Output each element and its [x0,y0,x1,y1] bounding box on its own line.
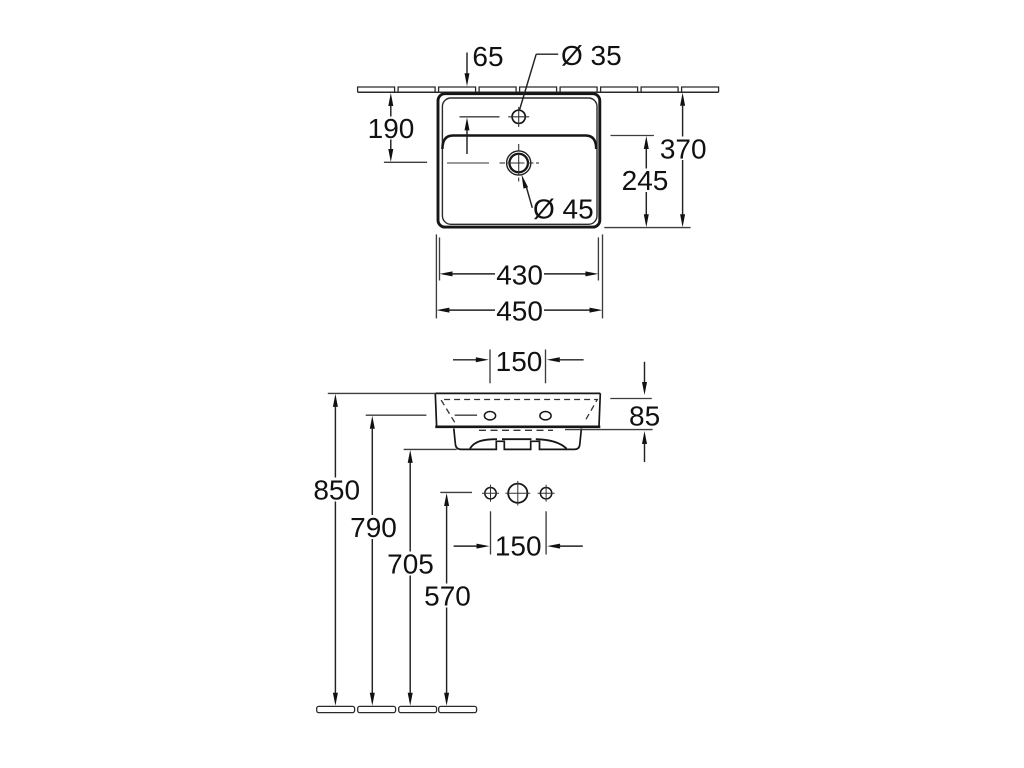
wall hatch band [358,87,719,92]
svg-text:Ø 35: Ø 35 [561,40,622,71]
svg-text:245: 245 [622,165,669,196]
floor hatch band [317,706,477,712]
svg-text:Ø 45: Ø 45 [533,193,594,224]
dimension 450 [436,234,602,326]
bracket hidden dashed line [479,429,553,431]
extension line to fixing hole [366,414,427,416]
dimension 850 [313,394,360,706]
label Ø 45 with leader [522,175,594,225]
svg-text:65: 65 [472,41,503,72]
front body left edge [435,393,436,426]
dimension 65 [465,41,504,154]
drain hole circles [507,151,531,175]
svg-text:85: 85 [629,400,660,431]
tap hole circle [512,110,525,123]
siphon cover arcs [470,439,567,448]
wall hole centre [506,481,531,506]
svg-text:370: 370 [660,133,707,164]
top edge extension to left [328,392,436,394]
dimension 790 [350,416,397,706]
dimension 150 (wall holes) [454,511,583,561]
siphon bracket outline [454,429,582,450]
dimension 705 [387,449,457,705]
basin bowl edge line [442,136,596,150]
dimension 85 [565,362,660,462]
basin inner rim line (plan) [442,98,597,224]
wall hole small right [538,485,555,502]
svg-text:850: 850 [313,474,360,505]
dimension 370 [604,93,706,228]
fixing hole left [484,412,495,420]
label Ø 35 with leader [520,40,622,110]
dimension 190 [368,93,427,162]
fixing hole right [540,412,551,420]
hidden rim dashed line [441,400,598,423]
drain crosshair dash-dot [447,144,539,182]
tap hole extension line [460,116,500,118]
dimension 150 (tap holes) [453,346,584,383]
svg-text:790: 790 [350,512,397,543]
wall hole small left [482,485,499,502]
svg-text:570: 570 [424,580,471,611]
basin outer outline (plan) [438,94,600,227]
tap hole crosshair [508,107,529,127]
front body bottom band [435,425,600,428]
svg-text:450: 450 [496,296,543,327]
dimension 245 [611,136,669,228]
svg-text:430: 430 [496,259,543,290]
dimension 430 [440,237,599,290]
svg-text:150: 150 [496,346,543,377]
front body top edge [435,392,600,394]
front body right edge [599,393,600,426]
svg-text:705: 705 [387,548,434,579]
extension line 570 top [440,491,472,493]
svg-text:150: 150 [495,531,542,562]
dimension 570 [424,493,471,706]
